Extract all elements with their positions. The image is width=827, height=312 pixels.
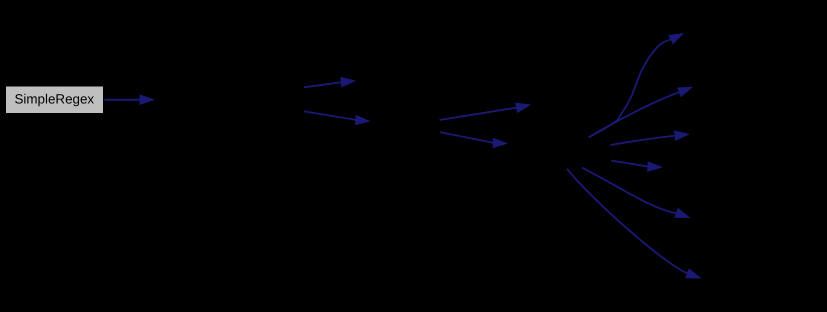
svg-text:SimpleRegex: SimpleRegex bbox=[14, 91, 94, 106]
